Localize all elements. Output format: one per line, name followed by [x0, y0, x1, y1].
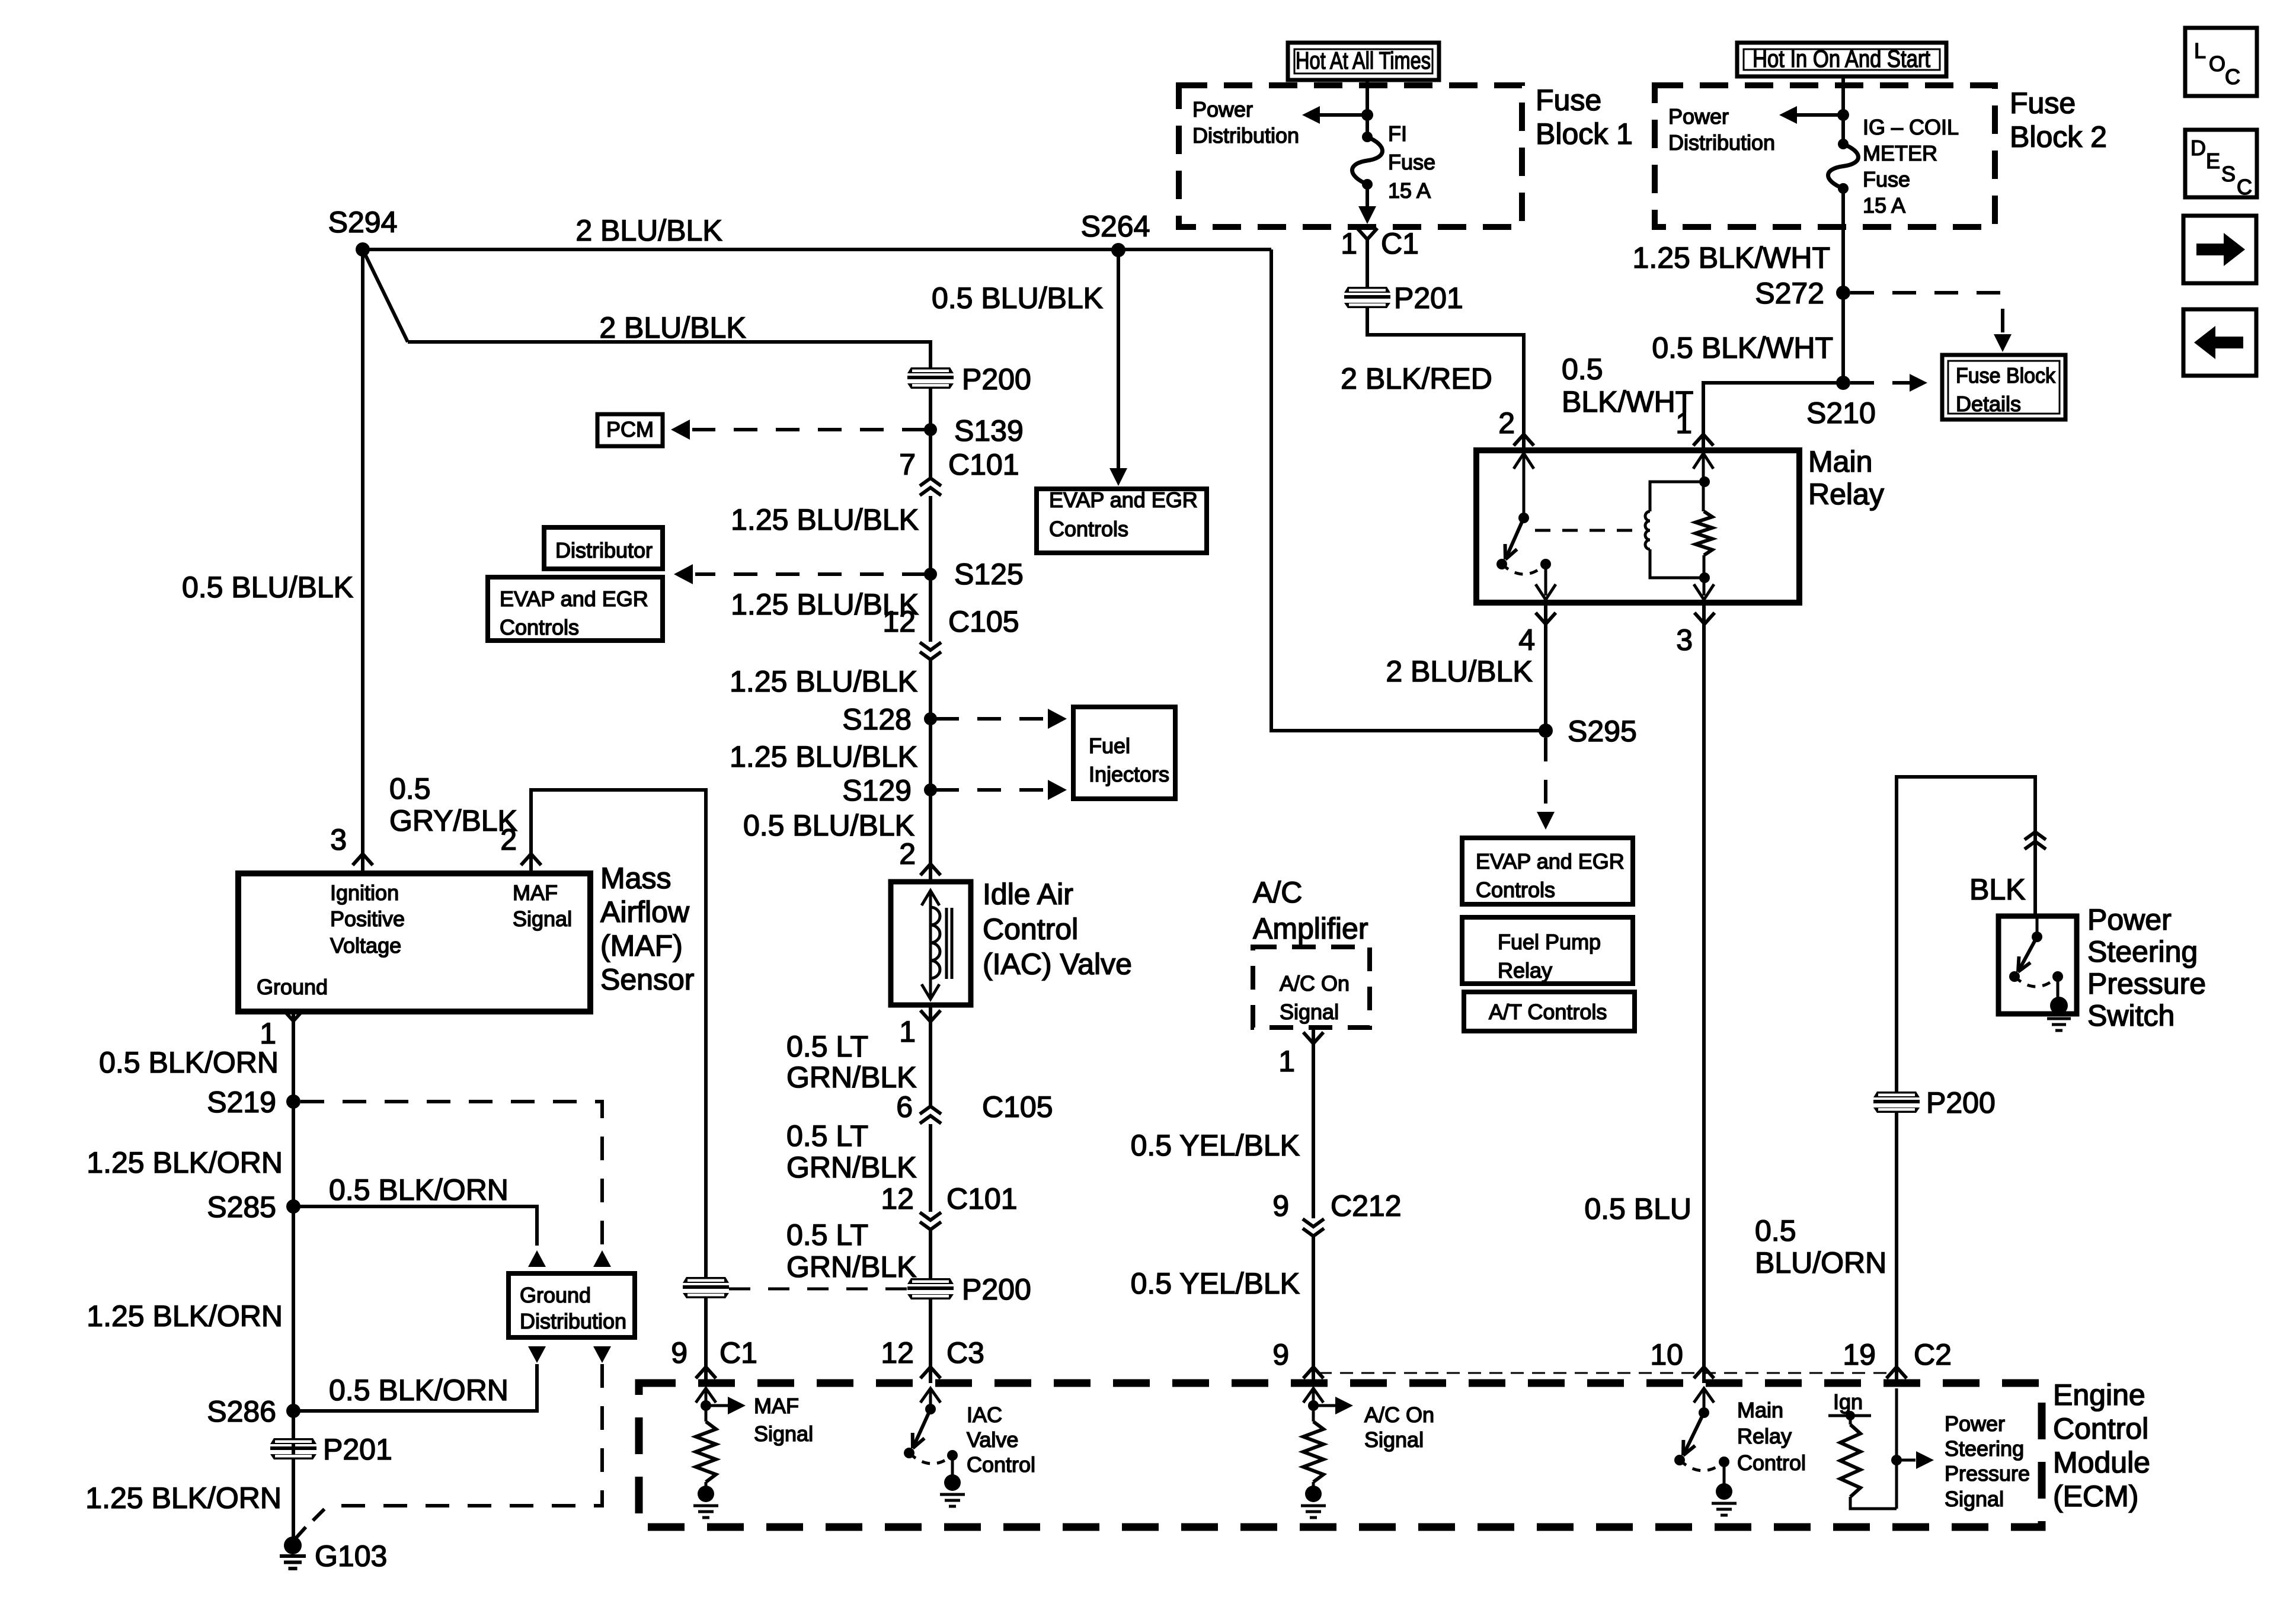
svg-text:Pressure: Pressure: [2087, 967, 2206, 1000]
svg-text:2 BLK/RED: 2 BLK/RED: [1341, 362, 1492, 395]
wire S264 corner down to S295 run: [1271, 249, 1546, 731]
connector P200 mid: [907, 1278, 954, 1299]
svg-text:Relay: Relay: [1498, 958, 1552, 982]
main relay switch output: [1544, 564, 1547, 596]
svg-text:S285: S285: [207, 1190, 276, 1224]
wire MAF pin 1 ground run: [292, 1012, 295, 1545]
wire C105 to C101: [929, 1124, 932, 1212]
dashed wire S128 to Fuel Injectors: [935, 717, 1045, 721]
svg-text:Signal: Signal: [1280, 1000, 1339, 1024]
connector P200 top: [907, 367, 954, 389]
svg-text:0.5 BLU/BLK: 0.5 BLU/BLK: [182, 571, 353, 604]
node S128: [924, 712, 937, 725]
ECM main relay control ground: [1716, 1483, 1732, 1500]
svg-text:GRN/BLK: GRN/BLK: [786, 1250, 917, 1283]
dashed box Engine Control Module ECM: [639, 1383, 2042, 1527]
wire MAF signal 0.5 GRY/BLK: [531, 790, 706, 1277]
main relay pin 2: [1514, 434, 1534, 446]
main relay internal pin1 lead: [1702, 450, 1705, 482]
svg-text:Power: Power: [1945, 1411, 2005, 1436]
box EVAP and EGR Controls mid: [1037, 489, 1207, 553]
svg-text:P200: P200: [1926, 1086, 1996, 1119]
main relay pin 3: [1694, 613, 1715, 624]
svg-text:1: 1: [899, 1015, 916, 1048]
main relay resistor: [1702, 482, 1705, 511]
legend box DESC: [2185, 130, 2257, 197]
wire C105 to IAC: [929, 660, 932, 882]
svg-text:Idle Air: Idle Air: [983, 878, 1073, 911]
main relay internal dashed link: [1535, 529, 1633, 532]
svg-text:Valve: Valve: [967, 1427, 1018, 1452]
svg-text:A/T Controls: A/T Controls: [1489, 1000, 1607, 1024]
svg-text:Steering: Steering: [1945, 1436, 2024, 1461]
svg-text:EVAP and EGR: EVAP and EGR: [1476, 849, 1625, 873]
wire C1 to P201: [1366, 239, 1369, 287]
svg-text:Main: Main: [1737, 1398, 1783, 1422]
svg-text:Fuse: Fuse: [1863, 167, 1910, 191]
svg-text:A/C On: A/C On: [1280, 971, 1350, 996]
svg-text:12: 12: [882, 605, 916, 638]
ECM A/C pull-down resistor: [1303, 1422, 1323, 1482]
svg-text:12: 12: [881, 1182, 914, 1215]
svg-text:1: 1: [1341, 227, 1357, 260]
svg-text:S139: S139: [954, 414, 1024, 447]
dashed box Fuse Block 1: [1179, 85, 1522, 227]
svg-text:C1: C1: [720, 1336, 757, 1369]
svg-text:C2: C2: [1914, 1338, 1952, 1371]
svg-text:Signal: Signal: [1364, 1427, 1424, 1452]
svg-text:S: S: [2221, 162, 2236, 186]
box EVAP and EGR Controls right: [1462, 838, 1633, 904]
svg-text:3: 3: [330, 823, 347, 856]
svg-text:A/C On: A/C On: [1364, 1403, 1434, 1427]
svg-text:Amplifier: Amplifier: [1253, 912, 1368, 945]
svg-text:1.25 BLU/BLK: 1.25 BLU/BLK: [730, 740, 917, 773]
svg-text:P200: P200: [962, 1273, 1031, 1306]
power steering switch BLK wire: [1897, 777, 2035, 1092]
wire S294 diagonal branch: [363, 249, 408, 342]
ECM A/C On signal input: [1303, 1388, 1323, 1403]
svg-text:15 A: 15 A: [1863, 193, 1905, 217]
svg-text:FI: FI: [1388, 121, 1407, 146]
arrow out ground distribution bottom right: [593, 1346, 611, 1363]
svg-text:0.5 YEL/BLK: 0.5 YEL/BLK: [1131, 1267, 1300, 1300]
wire C101 to C105: [929, 496, 932, 642]
node S125: [924, 568, 937, 581]
svg-text:D: D: [2191, 136, 2206, 160]
svg-text:Fuse: Fuse: [2010, 87, 2076, 120]
A/C amplifier pin 1: [1303, 1032, 1323, 1044]
svg-text:2 BLU/BLK: 2 BLU/BLK: [1386, 655, 1532, 688]
wire S286 to ground distribution: [293, 1364, 537, 1411]
svg-text:2 BLU/BLK: 2 BLU/BLK: [575, 214, 722, 247]
svg-text:IG – COIL: IG – COIL: [1863, 115, 1959, 139]
box Idle Air Control (IAC) Valve: [891, 882, 971, 1005]
ECM MAF signal input: [696, 1388, 716, 1403]
dashed wire S210 to Fuse Block Details: [1850, 381, 1910, 385]
svg-text:Airflow: Airflow: [600, 895, 690, 929]
svg-text:9: 9: [1272, 1338, 1289, 1371]
svg-text:Engine: Engine: [2053, 1378, 2145, 1411]
svg-text:S295: S295: [1568, 715, 1637, 748]
svg-text:1: 1: [1278, 1045, 1295, 1078]
wire P200 to C101: [929, 389, 932, 478]
main relay pin 1: [1693, 434, 1713, 446]
node S295: [1539, 724, 1553, 738]
svg-text:E: E: [2206, 149, 2220, 173]
box Hot At All Times: [1288, 43, 1439, 80]
svg-text:Relay: Relay: [1808, 478, 1884, 511]
legend box arrow left: [2183, 309, 2256, 376]
pin 1 of IAC valve: [920, 1010, 941, 1022]
box Fuel Pump Relay: [1462, 917, 1633, 984]
arrow out of fuse block 1: [1366, 184, 1369, 207]
svg-text:1.25 BLK/ORN: 1.25 BLK/ORN: [87, 1299, 283, 1333]
svg-text:Hot In On And Start: Hot In On And Start: [1753, 45, 1931, 72]
svg-text:C101: C101: [946, 1182, 1018, 1215]
ECM MAF pull-down resistor: [696, 1422, 716, 1482]
svg-text:12: 12: [881, 1336, 914, 1369]
ground G103: [295, 1527, 306, 1539]
ECM main relay control driver: [1694, 1388, 1714, 1403]
dashed wire S219 to ground distribution: [300, 1102, 602, 1244]
wire S210 to main relay pin 1: [1703, 383, 1843, 450]
svg-text:Sensor: Sensor: [600, 963, 694, 996]
svg-text:1.25 BLU/BLK: 1.25 BLU/BLK: [730, 665, 917, 698]
box Fuel Injectors: [1073, 707, 1175, 799]
svg-text:P201: P201: [323, 1433, 392, 1466]
svg-text:7: 7: [899, 448, 916, 481]
svg-text:0.5: 0.5: [1755, 1214, 1796, 1247]
connector P201 left: [270, 1438, 316, 1459]
svg-text:Control: Control: [967, 1452, 1035, 1477]
box Mass Airflow (MAF) Sensor: [238, 873, 590, 1012]
svg-text:Signal: Signal: [513, 907, 572, 931]
svg-text:0.5: 0.5: [389, 772, 431, 805]
svg-text:Power: Power: [1668, 104, 1729, 129]
svg-text:Module: Module: [2053, 1446, 2150, 1479]
svg-text:2 BLU/BLK: 2 BLU/BLK: [599, 311, 746, 344]
svg-text:2: 2: [500, 823, 517, 856]
svg-text:S264: S264: [1081, 210, 1150, 243]
svg-text:0.5 LT: 0.5 LT: [786, 1218, 868, 1251]
svg-text:S219: S219: [207, 1086, 276, 1119]
dashed box A/C Amplifier: [1253, 947, 1370, 1028]
wire A/C amplifier to C212: [1312, 1029, 1315, 1218]
box EVAP and EGR Controls left: [488, 577, 663, 641]
box A/T Controls: [1464, 992, 1635, 1031]
svg-text:2: 2: [1498, 406, 1515, 440]
svg-text:BLK/WHT: BLK/WHT: [1562, 385, 1693, 418]
svg-text:C101: C101: [948, 448, 1019, 481]
svg-text:BLK: BLK: [1969, 873, 2026, 906]
node S294: [356, 242, 370, 257]
thin dashed connector line in ECM: [1319, 1372, 1891, 1374]
svg-text:0.5 BLK/ORN: 0.5 BLK/ORN: [329, 1173, 509, 1206]
svg-text:C1: C1: [1381, 227, 1419, 260]
MAF pin 1: [283, 1010, 303, 1021]
dashed wire S139 to PCM: [692, 428, 926, 431]
svg-text:Fuel Pump: Fuel Pump: [1498, 930, 1601, 954]
svg-text:Ignition: Ignition: [330, 881, 399, 905]
svg-text:S125: S125: [954, 558, 1024, 591]
svg-text:2: 2: [899, 837, 916, 870]
legend box arrow right: [2183, 216, 2256, 283]
ECM A/C ground: [1305, 1486, 1322, 1502]
svg-text:Ground: Ground: [257, 975, 328, 999]
node S210: [1836, 376, 1850, 390]
svg-text:Distribution: Distribution: [1192, 123, 1299, 148]
svg-text:S129: S129: [842, 774, 912, 807]
connector on BLK wire: [2025, 832, 2046, 840]
arrow out ground distribution bottom left: [528, 1346, 546, 1363]
svg-text:0.5 BLU: 0.5 BLU: [1584, 1192, 1691, 1225]
node S219: [286, 1094, 300, 1109]
svg-text:S210: S210: [1806, 396, 1876, 430]
svg-text:Positive: Positive: [330, 907, 405, 931]
wire from Hot In On And Start through fuse block 2: [1841, 76, 1845, 144]
svg-text:PCM: PCM: [606, 417, 654, 441]
wire 2 BLK/RED to main relay pin 2: [1367, 308, 1524, 450]
arrow into ground distribution top left: [528, 1250, 546, 1267]
dashed link between P200 grommets: [729, 1288, 907, 1291]
dashed wire S272 to fuse block details: [1850, 293, 2003, 335]
svg-text:G103: G103: [315, 1539, 387, 1573]
svg-text:Fuel: Fuel: [1089, 734, 1130, 758]
fuse IG-COIL METER Fuse 15 A: [1838, 139, 1849, 149]
svg-text:Fuse Block: Fuse Block: [1956, 363, 2056, 388]
svg-text:C105: C105: [948, 605, 1019, 638]
dashed box Fuse Block 2: [1655, 85, 1995, 227]
IAC valve solenoid symbol: [922, 891, 939, 905]
junction and arrow to Power Distribution: [1361, 109, 1373, 121]
svg-text:0.5 YEL/BLK: 0.5 YEL/BLK: [1131, 1129, 1300, 1162]
svg-text:Signal: Signal: [754, 1422, 813, 1446]
svg-text:0.5 BLU/BLK: 0.5 BLU/BLK: [932, 281, 1103, 315]
wire main relay pin 4 to S295: [1544, 603, 1547, 731]
svg-text:(IAC) Valve: (IAC) Valve: [983, 948, 1132, 981]
svg-text:Main: Main: [1808, 445, 1872, 478]
wire main relay pin 3 to ECM pin 10: [1702, 603, 1706, 1383]
main relay internal pin2 lead: [1523, 450, 1526, 518]
wire P200 to ECM pin 19: [1895, 1113, 1898, 1383]
svg-text:S286: S286: [207, 1395, 276, 1428]
svg-text:Control: Control: [2053, 1412, 2148, 1445]
svg-text:Block 2: Block 2: [2010, 120, 2107, 153]
wire fuse to S210: [1841, 188, 1845, 383]
node S285: [286, 1199, 300, 1214]
box Fuse Block Details: [1942, 355, 2065, 420]
node S286: [286, 1404, 300, 1418]
svg-text:EVAP and EGR: EVAP and EGR: [500, 587, 648, 611]
svg-text:1.25 BLK/ORN: 1.25 BLK/ORN: [87, 1146, 283, 1179]
node S139: [924, 423, 937, 436]
svg-text:0.5 LT: 0.5 LT: [786, 1119, 868, 1153]
svg-text:Controls: Controls: [1049, 517, 1128, 541]
node S272: [1836, 286, 1850, 300]
svg-text:Hot At All Times: Hot At All Times: [1296, 47, 1431, 74]
svg-text:(MAF): (MAF): [600, 929, 683, 962]
power steering switch contacts: [2036, 916, 2039, 937]
dashed wire S129 to Fuel Injectors: [935, 788, 1045, 792]
svg-text:Pressure: Pressure: [1945, 1461, 2030, 1486]
box Ground Distribution: [509, 1273, 635, 1337]
svg-text:GRN/BLK: GRN/BLK: [786, 1061, 917, 1094]
svg-text:P200: P200: [962, 363, 1031, 396]
svg-text:15 A: 15 A: [1388, 178, 1431, 203]
svg-text:1: 1: [260, 1017, 276, 1050]
svg-text:9: 9: [671, 1336, 687, 1369]
svg-text:Switch: Switch: [2087, 999, 2175, 1032]
svg-text:1.25 BLU/BLK: 1.25 BLU/BLK: [731, 503, 919, 536]
wire C212 to ECM pin 9: [1312, 1236, 1315, 1383]
node S129: [924, 783, 937, 796]
wire from Hot At All Times into fuse block: [1366, 80, 1369, 137]
svg-text:0.5: 0.5: [1562, 353, 1603, 386]
svg-text:Power: Power: [1192, 97, 1253, 121]
dashed wire S125 to Distributor / EVAP: [695, 572, 926, 576]
svg-text:1.25 BLK/ORN: 1.25 BLK/ORN: [85, 1481, 282, 1515]
svg-text:S128: S128: [842, 703, 912, 736]
svg-text:GRN/BLK: GRN/BLK: [786, 1151, 917, 1184]
svg-text:Fuse: Fuse: [1536, 84, 1601, 117]
svg-text:Distribution: Distribution: [520, 1309, 626, 1333]
ECM IAC valve control driver: [920, 1388, 941, 1403]
connector P200 right: [1873, 1092, 1920, 1113]
svg-text:EVAP and EGR: EVAP and EGR: [1049, 488, 1198, 512]
svg-text:IAC: IAC: [967, 1403, 1002, 1427]
connector P201 fuse block 1: [1344, 287, 1390, 308]
node S264: [1111, 243, 1125, 257]
box PCM: [597, 414, 663, 446]
svg-text:0.5 LT: 0.5 LT: [786, 1030, 868, 1063]
svg-text:Control: Control: [983, 913, 1078, 946]
box Hot In On And Start: [1737, 43, 1946, 76]
wire P200 to ECM pin 12 C3: [929, 1299, 932, 1383]
svg-text:Fuse: Fuse: [1388, 150, 1435, 174]
svg-text:Injectors: Injectors: [1089, 762, 1169, 786]
svg-text:Power: Power: [2087, 903, 2172, 936]
svg-text:Ign: Ign: [1833, 1390, 1863, 1414]
svg-text:0.5 BLK/WHT: 0.5 BLK/WHT: [1652, 331, 1833, 364]
svg-text:C: C: [2237, 175, 2252, 199]
svg-text:C212: C212: [1331, 1189, 1402, 1222]
svg-text:Steering: Steering: [2087, 935, 2198, 968]
svg-text:Ground: Ground: [520, 1283, 591, 1307]
legend box LOC: [2185, 28, 2257, 96]
svg-text:Distributor: Distributor: [555, 538, 653, 562]
svg-text:MAF: MAF: [513, 881, 558, 905]
svg-text:Voltage: Voltage: [330, 933, 401, 958]
svg-text:S272: S272: [1755, 277, 1824, 310]
svg-text:0.5 BLU/BLK: 0.5 BLU/BLK: [743, 809, 914, 842]
svg-text:METER: METER: [1863, 141, 1937, 165]
box Main Relay: [1476, 450, 1799, 603]
svg-text:C105: C105: [982, 1090, 1053, 1124]
wire MAF signal P200 to ECM pin 9 C1: [704, 1298, 708, 1383]
wire S294 down to MAF pin 3: [361, 249, 364, 873]
svg-text:0.5 BLK/ORN: 0.5 BLK/ORN: [329, 1374, 509, 1407]
svg-text:GRY/BLK: GRY/BLK: [389, 804, 517, 837]
wire IAC pin1 to C105: [929, 1005, 932, 1106]
svg-text:C3: C3: [946, 1336, 984, 1369]
svg-text:C: C: [2225, 65, 2240, 89]
svg-text:(ECM): (ECM): [2053, 1480, 2138, 1513]
svg-text:3: 3: [1676, 623, 1693, 657]
svg-text:A/C: A/C: [1253, 876, 1302, 909]
wire S285 to ground distribution: [293, 1206, 537, 1246]
svg-text:S294: S294: [328, 206, 398, 239]
svg-text:Signal: Signal: [1945, 1487, 2004, 1511]
svg-text:6: 6: [896, 1090, 913, 1124]
svg-text:Mass: Mass: [600, 862, 671, 895]
main relay coil: [1699, 476, 1710, 487]
svg-text:Control: Control: [1737, 1451, 1806, 1475]
junction and arrow to Power Distribution 2: [1837, 109, 1849, 121]
svg-text:0.5 BLK/ORN: 0.5 BLK/ORN: [99, 1046, 279, 1079]
wire 2 BLU/BLK from S294 to S264 and corner: [363, 248, 1271, 251]
svg-text:Distribution: Distribution: [1668, 130, 1775, 155]
fuse FI Fuse 15 A: [1362, 132, 1373, 142]
main relay switch: [1518, 513, 1529, 523]
ECM IAC ground: [944, 1474, 961, 1491]
wire C101 to P200: [929, 1230, 932, 1278]
svg-text:L: L: [2194, 39, 2206, 63]
connector P200 left: [683, 1277, 729, 1298]
svg-text:P201: P201: [1394, 281, 1463, 315]
svg-text:Controls: Controls: [1476, 878, 1555, 902]
svg-text:19: 19: [1843, 1338, 1876, 1371]
wire 2 BLU/BLK second run to P200: [408, 342, 930, 367]
svg-text:10: 10: [1650, 1338, 1683, 1371]
svg-text:9: 9: [1272, 1189, 1289, 1222]
svg-text:MAF: MAF: [754, 1394, 799, 1418]
svg-text:Details: Details: [1956, 392, 2021, 416]
box Distributor: [544, 527, 663, 569]
box Power Steering Pressure Switch: [1998, 916, 2077, 1014]
dashed wire ground distribution to G103 run: [313, 1364, 602, 1521]
svg-text:Controls: Controls: [500, 615, 579, 639]
svg-text:Relay: Relay: [1737, 1424, 1792, 1448]
svg-text:Block 1: Block 1: [1536, 117, 1633, 151]
svg-text:1.25 BLK/WHT: 1.25 BLK/WHT: [1633, 241, 1830, 274]
svg-text:BLU/ORN: BLU/ORN: [1755, 1246, 1886, 1279]
main relay pin 4: [1536, 613, 1556, 624]
svg-text:4: 4: [1518, 623, 1535, 657]
ECM MAF ground: [698, 1486, 714, 1502]
wire S264 down arrow to EVAP and EGR Controls: [1117, 250, 1120, 469]
arrow into ground distribution top right: [593, 1250, 611, 1267]
dashed arrow S295 to EVAP and EGR Controls: [1544, 738, 1547, 813]
ECM power steering pressure signal: [1895, 1388, 1898, 1509]
svg-text:O: O: [2209, 52, 2225, 76]
pin 1 connector C1: [1357, 228, 1377, 239]
